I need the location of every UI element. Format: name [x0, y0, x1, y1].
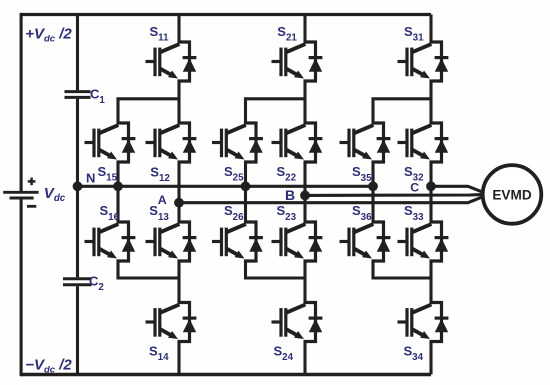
node N junction dot: [73, 181, 83, 191]
wire : leg 1 S12 emitter to phase node: [177, 161, 180, 203]
IGBT switch S14 with antiparallel diode: [146, 303, 197, 342]
wire : leg 1 S13 emitter down to S14: [177, 260, 180, 304]
battery Vdc : long positive plate: [3, 191, 38, 194]
wire : leg 2 upper clamp jog to S25: [246, 99, 306, 124]
wire : leg 2 S26 emitter lower clamp jog: [246, 260, 306, 278]
capacitor C2: [63, 277, 92, 280]
IGBT switch S21 with antiparallel diode: [272, 42, 323, 81]
IGBT switch S22 with antiparallel diode: [272, 123, 323, 162]
battery plus sign: [28, 180, 36, 183]
svg-text:N: N: [86, 171, 95, 186]
svg-text:B: B: [285, 187, 295, 203]
IGBT switch S12 with antiparallel diode: [146, 123, 197, 162]
battery Vdc : short negative plate: [10, 196, 34, 199]
IGBT switch S11 with antiparallel diode: [146, 42, 197, 81]
wire : leg 3 S31 emitter down through junction to S32: [429, 80, 432, 124]
wire : leg 2 S22 emitter to phase node: [303, 161, 306, 195]
wire : leg 3 S35 emitter to neutral rail: [371, 161, 374, 186]
battery Vdc : positive terminal lead: [20, 13, 23, 191]
wire : leg 3 S34 emitter to DC- rail: [429, 341, 432, 375]
wire : leg 1 collector drop from DC+ rail to S11: [177, 15, 180, 44]
capacitor C1: [65, 90, 91, 93]
wire : leg 2 neutral rail to S26 collector: [244, 186, 247, 223]
wire : bottom DC- rail: [21, 373, 431, 376]
wire : top DC+ rail: [21, 13, 431, 16]
IGBT switch S13 with antiparallel diode: [146, 222, 197, 261]
wire : leg 2 phase node to S23 collector: [303, 195, 306, 223]
wire : leg 3 S33 emitter down to S34: [429, 260, 432, 304]
phase node dot leg 3: [426, 181, 436, 191]
wire : node N to C2: [76, 186, 79, 277]
wire : leg 2 S24 emitter to DC- rail: [303, 341, 306, 375]
svg-text:EVMD: EVMD: [492, 188, 531, 203]
IGBT switch S32 with antiparallel diode: [398, 123, 449, 162]
wire : leg 2 S23 emitter down to S24: [303, 260, 306, 304]
wire : leg 3 upper clamp jog to S35: [373, 99, 431, 124]
wire : leg 1 upper clamp jog to S15: [118, 99, 179, 124]
wire : leg 3 neutral rail to S36 collector: [371, 186, 374, 223]
phase node dot leg 2: [300, 191, 310, 201]
wire : leg 1 S15 emitter to neutral rail: [116, 161, 119, 186]
battery Vdc : negative terminal lead: [20, 199, 23, 376]
IGBT switch S23 with antiparallel diode: [272, 222, 323, 261]
svg-text:C: C: [410, 181, 419, 195]
IGBT switch S25 with antiparallel diode: [212, 123, 263, 162]
motor drive EVMD circle: [483, 165, 542, 224]
wire : neutral rail from N across legs: [78, 185, 374, 188]
wire : C2 to DC- rail: [76, 286, 79, 374]
junction dot clamp leg 3 on neutral rail: [368, 181, 378, 191]
wire : C1 to node N: [76, 99, 79, 187]
junction dot clamp leg 1 on neutral rail: [113, 181, 123, 191]
junction dot clamp leg 2 on neutral rail: [241, 181, 251, 191]
wire : DC+ rail to C1: [76, 13, 79, 90]
IGBT switch S35 with antiparallel diode: [340, 123, 391, 162]
IGBT switch S24 with antiparallel diode: [272, 303, 323, 342]
IGBT switch S31 with antiparallel diode: [398, 42, 449, 81]
IGBT switch S15 with antiparallel diode: [85, 123, 136, 162]
svg-text:A: A: [158, 193, 167, 207]
wire : leg 1 neutral rail to S16 collector: [116, 186, 119, 223]
wire : phase A line to EVMD: [179, 196, 484, 202]
wire : leg 1 S11 emitter down through junction to S12: [177, 80, 180, 124]
IGBT switch S16 with antiparallel diode: [85, 222, 136, 261]
wire : leg 3 phase node to S33 collector: [429, 186, 432, 223]
wire : leg 1 phase node to S13 collector: [177, 203, 180, 223]
wire : phase C line to EVMD: [431, 186, 484, 192]
IGBT switch S26 with antiparallel diode: [212, 222, 263, 261]
wire : leg 2 S25 emitter to neutral rail: [244, 161, 247, 186]
wire : leg 3 collector drop from DC+ rail to S31: [429, 15, 432, 44]
IGBT switch S33 with antiparallel diode: [398, 222, 449, 261]
wire : phase B line to EVMD: [305, 194, 484, 195]
phase node dot leg 1: [174, 198, 184, 208]
wire : leg 1 S14 emitter to DC- rail: [177, 341, 180, 375]
wire : leg 2 collector drop from DC+ rail to S21: [303, 15, 306, 44]
wire : leg 3 S36 emitter lower clamp jog: [373, 260, 431, 278]
IGBT switch S36 with antiparallel diode: [340, 222, 391, 261]
battery minus sign: [27, 205, 36, 208]
wire : leg 1 S16 emitter lower clamp jog: [118, 260, 179, 278]
IGBT switch S34 with antiparallel diode: [398, 303, 449, 342]
wire : leg 3 S32 emitter to phase node: [429, 161, 432, 186]
wire : leg 2 S21 emitter down through junction to S22: [303, 80, 306, 124]
